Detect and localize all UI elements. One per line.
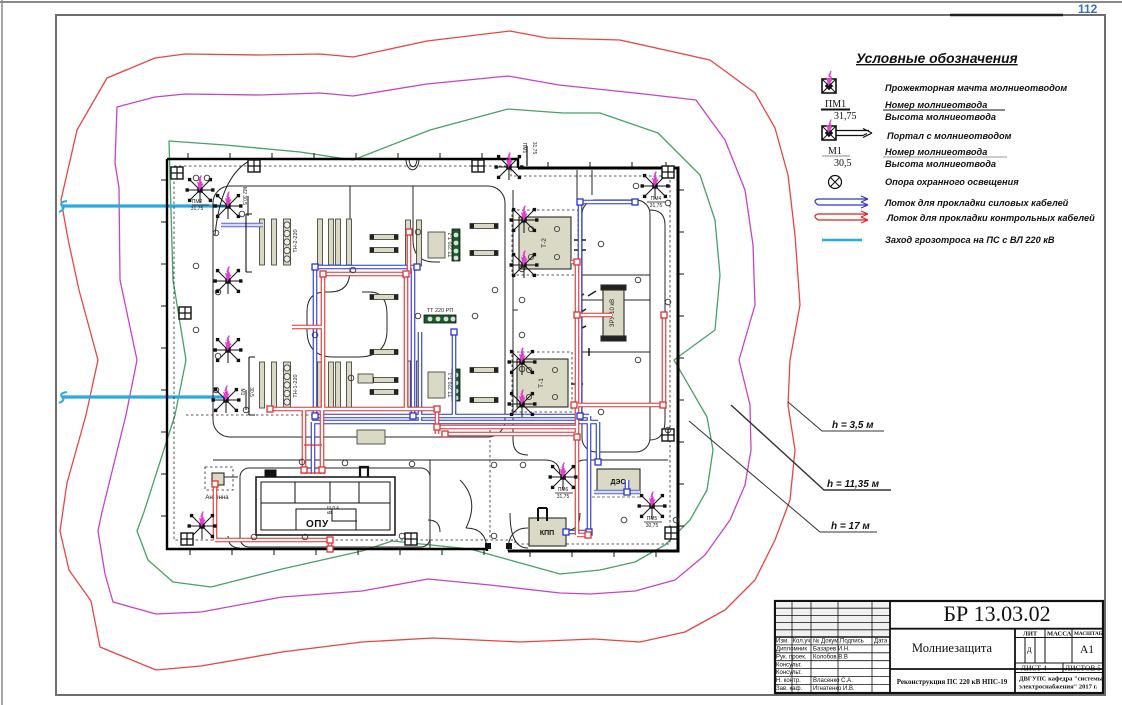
svg-text:30,5: 30,5 (248, 387, 254, 397)
svg-text:ТН-2-220: ТН-2-220 (293, 229, 299, 252)
svg-text:ПМ6: ПМ6 (558, 487, 569, 493)
svg-text:Дата: Дата (874, 639, 888, 645)
svg-text:Заход грозотроса на ПС с ВЛ 2: Заход грозотроса на ПС с ВЛ 220 кВ (885, 235, 1055, 245)
svg-text:ТН-1-220: ТН-1-220 (293, 374, 299, 397)
svg-text:Т-2: Т-2 (541, 238, 548, 248)
svg-text:кВ: кВ (327, 510, 332, 515)
svg-text:ОПУ: ОПУ (306, 519, 329, 530)
svg-text:ПМ5: ПМ5 (647, 516, 658, 522)
svg-text:Колобов В.В: Колобов В.В (813, 654, 848, 660)
svg-text:Консульт.: Консульт. (776, 662, 802, 668)
svg-text:ЛИТ: ЛИТ (1023, 630, 1038, 637)
svg-text:Зав. каф.: Зав. каф. (776, 686, 803, 692)
svg-text:ЛИСТОВ 5: ЛИСТОВ 5 (1065, 664, 1101, 673)
svg-text:Портал с молниеотводом: Портал с молниеотводом (887, 131, 1012, 141)
svg-text:Кол.уч: Кол.уч (793, 639, 811, 645)
svg-text:Консульт.: Консульт. (776, 670, 802, 676)
svg-text:Реконструкция ПС 220 кВ НПС-19: Реконструкция ПС 220 кВ НПС-19 (897, 678, 1008, 686)
svg-text:Игнатенко И.В.: Игнатенко И.В. (813, 686, 855, 692)
svg-text:31,75: 31,75 (650, 203, 663, 209)
svg-text:Номер молниеотвода: Номер молниеотвода (885, 100, 987, 110)
svg-text:Антенна: Антенна (205, 495, 229, 501)
svg-text:112: 112 (1078, 2, 1098, 16)
svg-text:Дипломник: Дипломник (776, 647, 807, 653)
svg-text:ПМ1: ПМ1 (521, 143, 527, 154)
svg-text:Изм.: Изм. (776, 639, 789, 645)
svg-text:ЛИСТ 4: ЛИСТ 4 (1021, 664, 1047, 673)
svg-text:Рук. проек.: Рук. проек. (776, 654, 807, 660)
svg-text:Номер молниеотвода: Номер молниеотвода (885, 147, 987, 157)
svg-text:ПМ4: ПМ4 (651, 196, 662, 202)
svg-text:Подпись: Подпись (840, 639, 864, 645)
svg-text:М1: М1 (239, 389, 245, 396)
svg-text:М1: М1 (828, 146, 842, 157)
svg-text:h = 11,35 м: h = 11,35 м (827, 479, 880, 490)
svg-text:31,75: 31,75 (557, 494, 570, 500)
svg-text:Прожекторная мачта молниеотвод: Прожекторная мачта молниеотводом (885, 83, 1067, 93)
svg-text:Базарев И.Н.: Базарев И.Н. (813, 647, 850, 653)
svg-text:Н. контр.: Н. контр. (776, 678, 801, 684)
svg-text:электроснабжения" 2017 г.: электроснабжения" 2017 г. (1019, 684, 1098, 691)
svg-text:МАСШТАБ: МАСШТАБ (1074, 631, 1103, 637)
svg-text:ДЭС: ДЭС (610, 479, 625, 486)
svg-text:М2 30,5: М2 30,5 (241, 187, 247, 205)
svg-text:30,75: 30,75 (646, 523, 659, 529)
svg-text:31,75: 31,75 (191, 206, 204, 212)
svg-text:КПП: КПП (540, 530, 554, 537)
svg-text:h = 3,5 м: h = 3,5 м (832, 420, 874, 431)
svg-text:МАССА: МАССА (1047, 630, 1072, 637)
svg-text:Условные обозначения: Условные обозначения (856, 51, 1018, 66)
svg-text:ПМ1: ПМ1 (825, 99, 846, 110)
svg-text:д: д (1027, 644, 1032, 654)
svg-text:ТТ 220 РП: ТТ 220 РП (427, 308, 454, 314)
svg-text:Высота молниеотвода: Высота молниеотвода (885, 112, 996, 122)
svg-text:30,5: 30,5 (834, 158, 852, 169)
svg-text:А1: А1 (1080, 644, 1094, 656)
svg-text:Т-1: Т-1 (538, 378, 545, 388)
svg-text:31,75: 31,75 (531, 142, 537, 155)
svg-text:Лоток для прокладки контрольны: Лоток для прокладки контрольных кабелей (886, 213, 1095, 223)
svg-text:31,75: 31,75 (834, 111, 857, 122)
svg-text:Власенко С.А.: Власенко С.А. (813, 678, 853, 684)
svg-text:БР 13.03.02: БР 13.03.02 (943, 601, 1050, 626)
svg-text:Молниезащита: Молниезащита (912, 641, 993, 655)
svg-text:Опора охранного освещения: Опора охранного освещения (885, 177, 1019, 187)
svg-text:ДВГУПС кафедра "системы: ДВГУПС кафедра "системы (1019, 676, 1103, 683)
svg-text:Высота молниеотвода: Высота молниеотвода (885, 159, 996, 169)
svg-text:ПМ2: ПМ2 (192, 199, 203, 205)
svg-text:№ Докум.: № Докум. (813, 638, 840, 645)
svg-text:Лоток для прокладки силовых ка: Лоток для прокладки силовых кабелей (884, 198, 1069, 208)
svg-text:h = 17 м: h = 17 м (831, 521, 870, 532)
